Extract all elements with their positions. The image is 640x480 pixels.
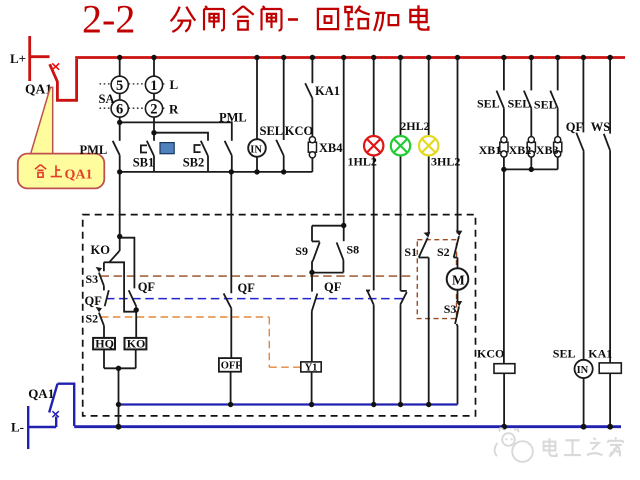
node bus-SEL1 xyxy=(501,55,506,60)
wire QF stub above xyxy=(311,272,313,291)
wire bus to green lamp xyxy=(400,58,402,136)
node S9-S8-bottom xyxy=(309,270,314,275)
wire merge down to blue bus xyxy=(118,368,120,426)
coil box KA1 xyxy=(599,363,621,373)
contact SB1 blade xyxy=(147,141,154,156)
wire circle6 down to node xyxy=(119,117,121,141)
svg-text:QA1: QA1 xyxy=(65,168,93,183)
wire S8 stub xyxy=(343,226,345,242)
node bus-SEL xyxy=(281,55,286,60)
svg-text:R: R xyxy=(169,102,179,117)
wire rail to QF-OFF column xyxy=(230,172,232,293)
node bluerail-1HL2 xyxy=(371,402,376,407)
svg-text:XB3: XB3 xyxy=(536,143,559,157)
node XB2-rail xyxy=(529,167,534,172)
wire IN bottom to blue bus xyxy=(583,378,585,427)
svg-text:XB1: XB1 xyxy=(479,143,502,157)
test jack XB3 xyxy=(554,137,562,158)
node bluerail-left xyxy=(116,402,121,407)
node bus-IN xyxy=(254,55,259,60)
wire bypass KO to KO coil node xyxy=(109,262,136,311)
svg-text:1HL2: 1HL2 xyxy=(348,155,377,169)
wire S3 stub xyxy=(103,262,105,271)
wire QA1 jog down-right-up xyxy=(57,59,76,100)
wire QF lamp2 to blue rail xyxy=(400,305,402,405)
svg-text:PML: PML xyxy=(80,143,108,157)
node bus-SEL2 xyxy=(529,55,534,60)
contact S2 blade xyxy=(99,313,104,326)
wire XB2 to rail xyxy=(530,157,532,170)
wire IN lamp to rail xyxy=(256,157,258,172)
SA coupling dotted lines xyxy=(100,84,167,108)
coil box KCO xyxy=(494,364,515,374)
test jack XB1 xyxy=(500,137,508,158)
node Lbus-IN xyxy=(581,424,587,430)
callout pointer xyxy=(29,87,52,158)
breaker QA1 top blade xyxy=(50,64,58,82)
node SA2-branch xyxy=(151,130,156,135)
wire jack rail y169 xyxy=(504,168,558,170)
svg-text:S8: S8 xyxy=(347,242,360,256)
svg-text:QF: QF xyxy=(566,120,584,134)
svg-text:5: 5 xyxy=(116,78,123,94)
wire rail down to KCO coil xyxy=(503,169,505,363)
coil box Y1 xyxy=(301,362,321,372)
contact QF right blade xyxy=(576,133,584,152)
svg-text:QF: QF xyxy=(138,280,156,294)
svg-text:S9: S9 xyxy=(295,244,308,258)
test jack XB2 xyxy=(527,137,535,158)
wire L- vertical stub xyxy=(27,406,29,449)
svg-text:SEL: SEL xyxy=(477,96,500,110)
wire bus to IN lamp xyxy=(256,58,258,140)
orange dashed sequence line xyxy=(101,317,301,367)
wire L- tick xyxy=(28,426,56,428)
node bus-1HL2 xyxy=(371,55,376,60)
watermark text 电工之家 xyxy=(544,437,623,456)
svg-text:1: 1 xyxy=(150,78,157,94)
wire bus to yellow lamp xyxy=(428,58,430,136)
lamp 3HL2 yellow xyxy=(419,136,438,155)
wire KA1 coil to blue bus xyxy=(609,373,611,426)
wire bus to SEL2 xyxy=(530,58,532,90)
node bus-SA1 xyxy=(151,55,156,60)
wire KO coil down xyxy=(135,349,137,368)
node bus-2HL2 xyxy=(398,55,403,60)
contact SEL/KCO blade xyxy=(276,140,284,156)
node bus-QF xyxy=(581,55,586,60)
wire bus to S8 node xyxy=(343,58,345,226)
node bluerail-2HL2 xyxy=(398,402,403,407)
svg-text:XB2: XB2 xyxy=(509,143,532,157)
node KO-top xyxy=(117,234,122,239)
node XB1-rail xyxy=(501,167,506,172)
wire SEL1 to XB1 xyxy=(503,108,505,137)
wire SB2 to rail xyxy=(207,156,209,172)
node bluerail-OFF xyxy=(228,402,233,407)
title CJK 分闸合闸- 回路加电 xyxy=(171,5,429,32)
wire WS to KA1 coil xyxy=(609,151,611,363)
node bus-S2 xyxy=(455,55,460,60)
coil box HQ xyxy=(93,338,115,350)
QA1 bottom X marker xyxy=(52,411,58,417)
svg-text:KA1: KA1 xyxy=(315,84,340,98)
svg-text:QF: QF xyxy=(324,280,342,294)
main black wiring xyxy=(113,58,458,291)
watermark logo xyxy=(495,428,533,462)
wire bus to SA circle 1 xyxy=(153,58,155,76)
contact S9 tick xyxy=(312,240,320,242)
node Lbus-left xyxy=(116,424,122,430)
node bus-S8 xyxy=(341,55,346,60)
brown dashed S1-S2 group box xyxy=(417,240,456,319)
SA circle 6 xyxy=(111,100,128,117)
wire L+ tick xyxy=(30,55,50,58)
wire S9 stub xyxy=(311,226,313,242)
lamp 1HL2 red xyxy=(364,136,383,155)
wire node6 to PML right branch xyxy=(120,122,232,140)
wire QA1 bottom jog xyxy=(58,384,75,426)
wire rail to KO node xyxy=(119,172,121,237)
contact S3 blade xyxy=(99,273,104,286)
QA1 trip X marker xyxy=(52,63,59,69)
node bus-3HL2 xyxy=(426,55,431,60)
blue square marker xyxy=(160,143,174,154)
wire bus to SEL contact xyxy=(283,58,285,140)
wire top bus xyxy=(75,56,625,59)
arrow S2 right xyxy=(456,231,463,237)
wire SEL3 to XB3 xyxy=(557,108,559,137)
wire bus to red lamp xyxy=(373,58,375,136)
svg-text:KCO: KCO xyxy=(477,347,504,361)
wire bus to SEL3 xyxy=(557,58,559,90)
node HQ-KO-merge xyxy=(116,366,121,371)
wire bus to WS contact xyxy=(609,58,611,134)
wire bus to S2 right xyxy=(457,58,459,234)
wire S3 right to blue rail xyxy=(457,324,458,405)
svg-text:SB1: SB1 xyxy=(133,155,155,169)
contact SB2 blade xyxy=(201,141,208,156)
wire motor to S3 right xyxy=(457,290,459,301)
svg-text:KA1: KA1 xyxy=(588,347,612,361)
breaker QA1 bottom blade xyxy=(49,384,57,413)
node bus-KA1 xyxy=(310,55,315,60)
svg-text:IN: IN xyxy=(250,145,262,156)
wire SEL contact to rail xyxy=(283,156,285,172)
wire yellow lamp down to S1 xyxy=(428,155,430,233)
wire PML left to rail xyxy=(119,155,121,172)
wire L+ vertical stub xyxy=(28,36,31,81)
wire horizontal rail y172 xyxy=(120,171,313,173)
arrow S1 xyxy=(424,232,431,238)
wire bus to SEL1 xyxy=(503,58,505,90)
wire bus to QF right contact xyxy=(582,58,584,132)
contact SEL3 blade xyxy=(550,91,557,109)
svg-text:PML: PML xyxy=(219,111,247,125)
node bluerail-Y1 xyxy=(309,402,314,407)
contact QF left blade xyxy=(105,290,109,306)
wire S1 to blue rail xyxy=(428,258,430,405)
wire KA1 to XB4 xyxy=(311,98,313,136)
indicator IN top circle xyxy=(248,139,266,157)
contact S2 right blade xyxy=(454,236,459,257)
wire SEL2 to XB2 xyxy=(530,108,532,137)
svg-text:SEL: SEL xyxy=(508,96,531,110)
wire S9-S8 top rail xyxy=(312,225,344,227)
wire node2 to SB2 branch xyxy=(154,133,208,141)
wire Y1 box to blue rail xyxy=(311,372,313,405)
node bus-SEL3 xyxy=(555,55,560,60)
wire KCO coil to blue bus xyxy=(503,373,505,426)
contact QF lamp1 tick xyxy=(366,290,370,292)
wire S2 to motor xyxy=(457,258,459,269)
wire S9 bottom xyxy=(312,260,313,273)
svg-text:6: 6 xyxy=(116,102,123,118)
brown dashed sequence line xyxy=(101,275,415,277)
contact PML right blade xyxy=(225,141,232,156)
svg-text:L-: L- xyxy=(11,420,24,435)
wire QF mid to OFF box xyxy=(230,308,232,358)
wire red lamp down to QF xyxy=(373,155,375,290)
coil box KO xyxy=(125,338,147,350)
wire circle5 to circle6 xyxy=(119,93,121,100)
node rail-IN xyxy=(254,169,259,174)
wire QA1 bottom stub xyxy=(55,417,57,428)
wire QF branch to KO coil xyxy=(135,306,137,338)
wire circle2 down to SB1 xyxy=(153,117,155,141)
contact QF lamp2 blade xyxy=(400,292,407,305)
svg-text:S3: S3 xyxy=(86,272,99,286)
test jack XB4 xyxy=(308,137,316,158)
contact QF below S9 blade xyxy=(312,294,318,312)
L- QA1 assembly blue xyxy=(28,384,74,449)
wire XB1 to rail xyxy=(503,157,505,170)
svg-text:M: M xyxy=(452,272,465,287)
svg-text:2HL2: 2HL2 xyxy=(400,119,429,133)
node rail-SEL xyxy=(281,169,286,174)
svg-text:L+: L+ xyxy=(10,51,26,66)
svg-text:KCO: KCO xyxy=(285,124,314,138)
svg-text:2: 2 xyxy=(150,102,157,118)
svg-text:2-2: 2-2 xyxy=(82,0,135,42)
contact QF branch blade xyxy=(129,290,137,306)
node bluerail-3HL2 xyxy=(426,402,431,407)
contact QF lamp1 blade xyxy=(367,291,374,305)
svg-text:WS: WS xyxy=(591,120,611,134)
wire PML right to rail xyxy=(231,156,233,172)
SA circle 1 xyxy=(145,76,162,93)
svg-text:L: L xyxy=(170,77,179,92)
contact S9 blade xyxy=(313,242,320,260)
indicator IN bottom circle xyxy=(575,360,593,378)
blue bottom bus L- xyxy=(74,425,621,428)
node SA6-branch xyxy=(117,120,122,125)
svg-text:SB2: SB2 xyxy=(183,155,205,169)
wire S2 jog xyxy=(454,257,458,259)
wire S1 jog xyxy=(419,257,429,259)
svg-text:IN: IN xyxy=(577,365,589,376)
contact WS blade xyxy=(604,134,610,151)
svg-text:QF: QF xyxy=(85,294,103,308)
contact SEL1 blade xyxy=(497,91,504,109)
motor M circle xyxy=(447,268,469,290)
coil box OFF xyxy=(219,358,241,372)
contact KA1 blade xyxy=(305,83,312,98)
right section wiring xyxy=(497,58,611,427)
wire KO node down xyxy=(119,237,121,252)
svg-text:KO: KO xyxy=(127,337,146,351)
node rail-PML xyxy=(117,169,122,174)
svg-text:SA: SA xyxy=(99,92,115,106)
SA switch circles xyxy=(111,76,162,117)
svg-text:SEL: SEL xyxy=(534,98,557,112)
blue dashed sequence line xyxy=(106,298,404,300)
wire S3 to QF xyxy=(103,286,105,291)
wire OFF box to blue rail xyxy=(230,372,232,405)
pushbutton SB1 actuator xyxy=(141,145,147,152)
SA circle 2 xyxy=(145,100,162,117)
wire QF to IN bottom xyxy=(583,151,585,359)
svg-text:HQ: HQ xyxy=(95,337,114,351)
contact PML left blade xyxy=(113,141,120,155)
wire KO tick xyxy=(104,261,109,263)
wire HQ coil down xyxy=(103,349,105,368)
svg-text:XB4: XB4 xyxy=(319,141,343,155)
node bus-WS xyxy=(607,55,612,60)
svg-text:SEL: SEL xyxy=(553,347,576,361)
pushbutton SB2 actuator xyxy=(194,145,200,152)
node S8-top xyxy=(341,223,346,228)
node rail-PMLR xyxy=(229,169,234,174)
contact S3 right blade xyxy=(455,306,459,324)
node Lbus-KCO xyxy=(501,424,507,430)
svg-text:S2: S2 xyxy=(86,311,99,325)
wire circle1 to circle2 xyxy=(153,93,155,100)
contact QF lamp2 tick xyxy=(401,290,407,292)
svg-text:SEL: SEL xyxy=(260,124,284,138)
svg-text:3HL2: 3HL2 xyxy=(431,155,460,169)
wire bus to KA1 contact xyxy=(311,58,313,83)
contact S1 blade xyxy=(419,238,428,258)
contact S8 blade xyxy=(337,242,344,260)
svg-text:S1: S1 xyxy=(404,245,417,259)
contact QF mid blade xyxy=(224,293,232,308)
lamp 2HL2 green xyxy=(391,136,410,155)
contact KO blade xyxy=(109,251,119,262)
svg-text:Y1: Y1 xyxy=(305,362,318,373)
top red bus L+ xyxy=(30,36,625,100)
wire QF lamp1 to blue rail xyxy=(373,305,375,405)
wire S2 to HQ coil xyxy=(103,326,105,338)
wire bus to SA circle 5 xyxy=(119,58,121,76)
wire green lamp down to QF xyxy=(400,155,402,290)
wire S8 bottom xyxy=(342,260,344,273)
wire jog KO node to QF branch xyxy=(120,238,135,289)
contact SEL2 blade xyxy=(524,91,531,109)
wire QF to Y1 box xyxy=(311,311,313,362)
wire XB3 to rail xyxy=(557,157,559,170)
arrow S2 left xyxy=(96,307,102,312)
ladder inside dashed box xyxy=(99,172,459,427)
svg-text:QF: QF xyxy=(238,281,256,295)
node QF-KO-coil xyxy=(134,307,139,312)
big dashed enclosure box xyxy=(83,215,476,416)
wire S8-S9 bottom rail xyxy=(312,272,343,274)
arrow S3 right xyxy=(456,301,463,306)
wire HQ-KO merge rail xyxy=(104,367,136,369)
blue return rail y404 xyxy=(119,403,458,405)
node Lbus-KA1 xyxy=(607,424,613,430)
callout box 合上QA1 xyxy=(18,154,105,189)
svg-text:S2: S2 xyxy=(437,245,450,259)
arrow S3 left xyxy=(96,267,102,272)
wire SB1 to rail xyxy=(153,156,155,172)
svg-text:QA1: QA1 xyxy=(28,386,54,401)
wire XB4 to rail end xyxy=(311,158,313,172)
svg-text:KO: KO xyxy=(91,243,111,257)
SA circle 5 xyxy=(111,76,128,93)
node bus-SA5 xyxy=(117,55,122,60)
svg-text:OFF: OFF xyxy=(221,360,242,371)
svg-text:S3: S3 xyxy=(444,302,457,316)
